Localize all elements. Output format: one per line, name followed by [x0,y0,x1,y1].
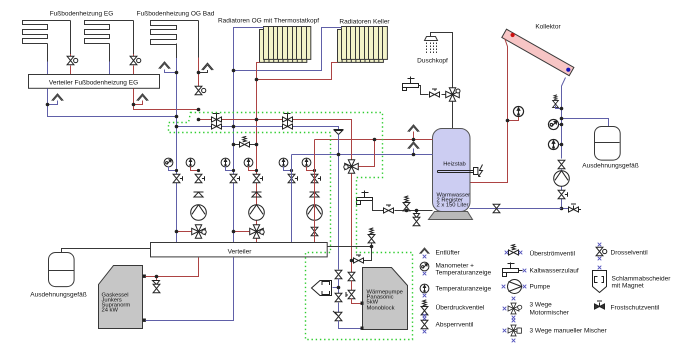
shut-off valve below pump, circuit 3 [311,227,318,235]
wire: cold water to shower mixer [419,86,446,95]
manual 3-way mixer (3 Wege manueller Mischer) group 1 [212,117,222,122]
expansion vessel (Ausdehnungsgefäß) solar [595,127,621,161]
wire: branch to expansion vessel [562,119,609,127]
svg-text:Schlammabscheider: Schlammabscheider [612,276,672,283]
radiator Radiatoren OG front panel with fins [264,27,311,60]
legend icon Frostschutzventil [595,301,605,309]
radiator Radiatoren Keller front panel with fins [342,27,388,60]
circulation pump, circuit 2 [249,205,265,221]
junction dot [197,71,201,75]
throttle valve (Drosselventil) coil1 [67,56,78,64]
wire: blue drop to heat pump corridor [338,135,340,270]
svg-text:Heizstab: Heizstab [443,162,466,168]
junction dot [255,78,259,82]
expansion vessel (Ausdehnungsgefäß) heating [49,253,75,287]
wire: mixer bypass stub, circuit 2 [234,231,250,233]
svg-text:Pumpe: Pumpe [530,284,551,291]
shut-off valve on cold water line [384,205,394,213]
legend icon Temperaturanzeige [420,284,429,293]
legend icon Absperrventil [423,317,427,321]
svg-text:Verteiler Fußbodenheizung EG: Verteiler Fußbodenheizung EG [49,80,138,87]
wire: group3 blue riser [291,155,293,243]
legend icon 3 Wege manueller Mischer [508,325,521,336]
junction dot [232,69,236,73]
cold water tap (Kaltwasserzulauf) main [357,198,373,201]
wire: red into tank upper left (from heating) [315,139,433,141]
throttle valve (Drosselventil) coil2 [130,56,141,64]
air vent (Entlüfter) red side below FBH distributor [137,94,149,101]
svg-text:Fußbodenheizung EG: Fußbodenheizung EG [50,11,114,18]
junction dot [506,119,510,123]
wire: fill/connect branch to heat pump supply [354,247,372,261]
svg-text:Duschkopf: Duschkopf [417,58,448,65]
wire: red below FBH distributor to east [134,89,199,110]
wire: branch to air vent coil3 supply [199,70,208,73]
shut-off valve corridor blue upper [335,270,342,278]
wire: red manifold (heating supply) [199,120,352,161]
svg-text:Frostschutzventil: Frostschutzventil [611,305,660,312]
air vent (Entlüfter) coil3 return [159,62,171,69]
hot water tank (Warmwasser 2 Register) [433,129,471,212]
svg-text:Ausdehnungsgefäß: Ausdehnungsgefäß [30,292,86,299]
shut-off valve on supply, circuit 3 [311,174,320,182]
floor heating coil 3 (Fußbodenheizung OG Bad) [151,21,199,45]
distributor box Verteiler Fußbodenheizung EG [29,75,160,89]
throttle valve (Drosselventil) coil3 [195,86,206,94]
wire: boiler red supply to distributor [146,258,199,277]
valve with lever corridor blue lower [333,311,342,321]
svg-text:Überdruckventiel: Überdruckventiel [436,304,485,312]
air vent (Entlüfter) coil3 supply [202,63,214,70]
wire: corridor blue into heat pump [339,321,361,329]
wire: corridor blue between valves [338,279,340,294]
svg-text:Verteiler: Verteiler [228,249,253,256]
junction dot [560,117,564,121]
svg-text:Temperaturanzeige: Temperaturanzeige [436,286,492,293]
junction dot [560,107,564,111]
legend icon Pumpe [508,280,522,294]
legend icon Überdruckventiel [421,300,428,315]
svg-text:Entlüfter: Entlüfter [436,250,461,257]
shut-off valve on supply, circuit 2 [253,174,262,182]
wire: coil2 blue return drop [109,44,111,62]
air vent (Entlüfter) on red tank line [408,125,420,132]
shut-off valve corridor red upper [348,272,355,280]
shut-off valve on supply, circuit 1 [195,174,204,182]
svg-text:Motormischer: Motormischer [530,310,570,317]
wire: coil1 blue return drop [47,44,49,62]
legend icon Manometer + Temperaturanzeige [420,262,429,271]
thermostatic shower mixing valve [446,88,460,102]
shut-off valve on return, circuit 2 [230,174,239,182]
floor heating coil 1 (Fußbodenheizung EG loop 1) [23,21,71,44]
wire: branch to air vent (red side) [134,101,143,105]
wire: blue below FBH distributor [48,89,177,117]
frost protection valve (Frostschutzventil) [569,204,582,212]
svg-text:Fußbodenheizung OG Bad: Fußbodenheizung OG Bad [137,11,215,18]
legend icon Überströmventil [505,251,509,255]
motorised 4-way mixer, circuit 1 [192,225,207,239]
legend icon Entlüfter [420,248,430,254]
shower head Duschkopf [425,37,438,41]
wire: red return radiator OG down [257,63,260,243]
svg-text:Monoblock: Monoblock [367,306,395,312]
wire: shower supply from mixer up and over [431,33,453,90]
shower spray [427,43,437,55]
wire: corridor red between valves [351,281,353,291]
wire: mixer to tank red line [359,140,375,167]
wire: blue manifold (heating return) [177,127,339,130]
manual 3-way mixer (3 Wege manueller Mischer) group 2 [283,117,293,122]
check valve (Schwerkraftbremse), circuit 2 [252,192,262,197]
air vent stub on blue tank line [413,149,415,155]
wire: solar cold (blue) column [562,78,569,209]
legend icon Drosselventil [598,243,602,247]
wire: safety line from distributor east [328,241,372,247]
wire: coil1 red to FBH distributor [70,66,72,75]
main distributor box (Verteiler) [151,243,328,257]
svg-text:3 Wege: 3 Wege [530,302,553,309]
motorised 4-way mixer, circuit 2 [250,225,265,239]
wire: expansion vessel to distributor [62,249,151,253]
check valve (Schwerkraftbremse), circuit 3 [310,192,320,197]
shut-off valve on shower cold water [430,89,440,97]
tank pedestal [429,212,473,220]
valve with handle on fill branch [354,255,364,263]
cold water tap (Kaltwasserzulauf) for shower [403,84,419,88]
wire: coil3 blue return down to manifold [176,44,178,59]
temperature gauge (Temperaturanzeige) on solar hot [513,106,523,116]
shut-off valve solar upper [558,160,565,168]
temperature gauge on supply, circuit 2 [244,158,253,167]
temperature gauge on supply, circuit 3 [302,158,311,167]
collector hot port dot [510,33,514,37]
system boundary (green dotted) heat pump / outdoor zone [169,113,413,340]
svg-text:Radiatoren Keller: Radiatoren Keller [339,19,390,26]
heat pump box (Wärmepumpe Panasonic 5kW Monoblock) [363,268,408,330]
wire: branch to air vent coil3 [165,70,177,73]
solar collector panel [502,29,574,76]
wire: branch to air vent (blue side) [48,101,58,105]
air vent stub on red tank line [413,132,415,140]
wire: solar hot (red) down to tank [470,39,508,183]
manometer gauge on solar column [559,124,562,126]
wire: coil1 supply drop (black above valve) [70,21,72,55]
overflow valve (Überströmventil) radiator circuit [234,144,257,146]
svg-text:Kollektor: Kollektor [535,24,561,31]
wire: red link radiator Keller [257,63,338,80]
shut-off valve on tank bottom east [493,204,500,212]
temperature gauge on return, circuit 1 [164,158,173,167]
lightning symbol at heating rod [479,165,483,177]
temperature gauge on return, circuit 2 [221,158,230,167]
motorised 3-way mixer (3 Wege Motormischer) boiler/tank circuit [344,160,359,174]
temperature gauge on solar column [559,144,562,146]
circulation pump, circuit 3 [307,205,323,221]
svg-text:Absperrventil: Absperrventil [436,322,474,329]
wire: boiler blue return from distributor [146,258,234,321]
air vent (Entlüfter) blue side below FBH distributor [52,94,64,101]
sludge separator (Schlammabscheider mit Magnet) [333,287,339,289]
svg-text:Kaltwasserzulauf: Kaltwasserzulauf [530,268,579,275]
junction dot [197,108,201,112]
pressure relief valve (Überdruckventil) heating [368,228,375,243]
svg-text:3 Wege manueller Mischer: 3 Wege manueller Mischer [530,328,608,335]
wire: blue link radiators OG-Keller [234,28,342,71]
svg-text:mit Magnet: mit Magnet [612,283,644,290]
junction dot [132,103,136,107]
wire: tank bottom east blue [470,208,562,210]
legend icon Schlammabscheider mit Magnet [598,266,602,270]
shut-off valve on return, circuit 1 [173,174,182,182]
svg-text:Radiatoren OG mit Thermostatko: Radiatoren OG mit Thermostatkopf [218,18,319,25]
heat pump ports [361,302,364,305]
svg-text:2 x 150 Liter: 2 x 150 Liter [437,203,469,209]
wire: coil3 supply drop (black above valve) [198,21,200,58]
circulation pump, circuit 1 [191,205,207,221]
temperature gauge on return, circuit 3 [279,158,288,167]
gas boiler (Gaskessel Junkers Supranorm 24 kW) [99,266,143,329]
legend icon 3 Wege Motormischer [508,303,522,314]
wire: coil2 red to FBH distributor [133,66,135,75]
svg-text:Temperaturanzeige: Temperaturanzeige [436,270,492,277]
svg-text:Manometer +: Manometer + [436,263,475,270]
wire: mixed water down to tank top [452,102,454,129]
valve with handle corridor red [346,290,355,298]
shut-off valve on return, circuit 3 [288,174,297,182]
drain valve on cold water line [416,211,418,214]
svg-text:Drosselventil: Drosselventil [611,250,649,257]
wire: corridor red into heat pump [352,299,361,304]
pressure relief valve on cold water line [403,196,410,211]
junction dot [46,103,50,107]
wire: blue supply radiator OG from riser [234,28,264,243]
check valve (Schwerkraftbremse), circuit 1 [194,192,204,197]
boiler port [143,275,146,278]
collector cold port dot [566,68,570,72]
wire: blue into tank lower left [292,154,433,156]
wire: mixer down to heat pump corridor (red) [351,174,353,273]
wire: corridor blue lower [338,303,340,313]
wire: cold water line to tank bottom [373,201,433,211]
junction dot [175,71,179,75]
svg-text:Überströmventil: Überströmventil [530,250,576,258]
pressure relief valve (Überdruckventil) on solar [553,95,559,108]
svg-text:Ausdehnungsgefäß: Ausdehnungsgefäß [582,163,638,170]
wire: thermometer stub on solar hot [508,117,519,121]
gravity brake (Schwerkraftbremse) on blue drop [334,130,344,135]
air vent (Entlüfter) on blue tank line [408,142,420,149]
wire: coil2 supply drop (black above valve) [133,21,135,55]
svg-text:24 kW: 24 kW [102,308,119,314]
floor heating coil 2 (Fußbodenheizung EG loop 2) [85,21,134,44]
drain valve on boiler supply [156,277,158,281]
legend icon Kaltwasserzulauf [503,269,519,273]
temperature gauge on supply, circuit 1 [186,158,195,167]
junction dot [560,207,564,211]
shut-off valve corridor blue middle [335,293,342,301]
wire: mixer bypass stub, circuit 1 [177,231,192,233]
radiator Radiatoren Keller back panel [338,30,384,63]
electric heating rod [438,171,474,173]
wire: group3 red riser [314,140,316,243]
shut-off valve solar lower [558,190,567,198]
solar circulation pump [554,171,570,187]
radiator Radiatoren OG back panel [260,30,307,63]
